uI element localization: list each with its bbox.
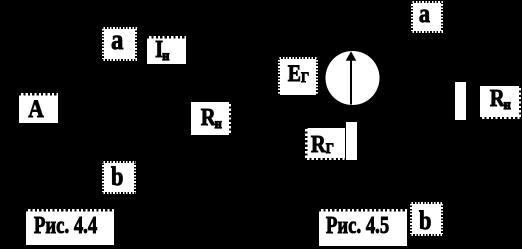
source EГ label <box>278 57 318 95</box>
source symbol: circle with upward arrow <box>323 48 383 108</box>
node a (fig 4.4) <box>102 27 137 61</box>
current label Iн <box>147 36 186 64</box>
resistor Rн label (fig 4.5) <box>480 86 521 119</box>
node b (fig 4.5) <box>410 202 443 236</box>
resistor RГ label <box>305 128 345 160</box>
node a (fig 4.5) <box>411 1 443 33</box>
caption Рис. 4.5 <box>319 209 407 246</box>
two-terminal network label A <box>19 93 58 123</box>
resistor Rн body (fig 4.5) <box>455 82 466 120</box>
node b (fig 4.4) <box>102 161 136 194</box>
resistor RГ body <box>346 122 357 160</box>
resistor Rн label (fig 4.4) <box>191 102 231 135</box>
caption Рис. 4.4 <box>26 209 114 245</box>
